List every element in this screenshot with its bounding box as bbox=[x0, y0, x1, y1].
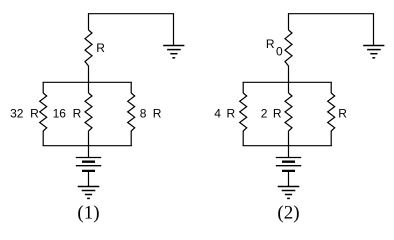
svg-text:R: R bbox=[338, 107, 347, 121]
svg-text:16: 16 bbox=[53, 107, 67, 121]
svg-text:R: R bbox=[73, 107, 82, 121]
svg-text:R: R bbox=[30, 107, 39, 121]
svg-text:8: 8 bbox=[140, 107, 147, 121]
svg-text:0: 0 bbox=[276, 44, 283, 58]
svg-text:R: R bbox=[96, 41, 105, 55]
svg-text:(2): (2) bbox=[277, 203, 299, 224]
svg-text:R: R bbox=[266, 37, 275, 51]
svg-text:32: 32 bbox=[10, 107, 24, 121]
svg-text:R: R bbox=[153, 107, 162, 121]
svg-text:R: R bbox=[273, 107, 282, 121]
svg-text:R: R bbox=[227, 107, 236, 121]
svg-text:2: 2 bbox=[261, 107, 268, 121]
svg-text:4: 4 bbox=[214, 107, 221, 121]
svg-text:(1): (1) bbox=[77, 203, 99, 224]
